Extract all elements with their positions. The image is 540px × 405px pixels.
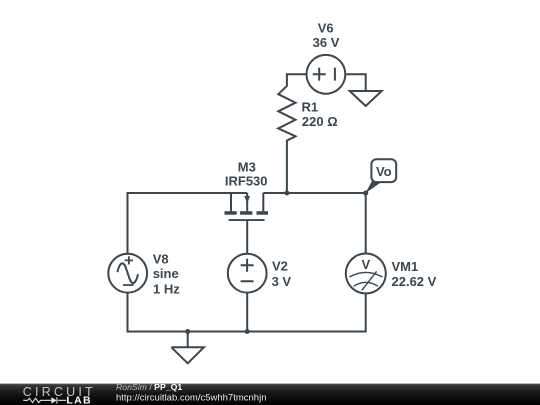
svg-text:3 V: 3 V — [272, 274, 292, 289]
svg-text:IRF530: IRF530 — [225, 174, 268, 189]
svg-text:V8: V8 — [153, 251, 169, 266]
svg-text:LAB: LAB — [66, 394, 91, 405]
svg-text:sine: sine — [153, 266, 179, 281]
svg-text:http://circuitlab.com/c5whh7tm: http://circuitlab.com/c5whh7tmcnhjn — [116, 392, 266, 403]
svg-text:V: V — [361, 257, 370, 272]
svg-text:1 Hz: 1 Hz — [153, 282, 180, 297]
svg-text:M3: M3 — [238, 159, 256, 174]
svg-text:V2: V2 — [272, 258, 288, 273]
svg-text:RonSim / PP_Q1: RonSim / PP_Q1 — [116, 382, 182, 392]
svg-text:V6: V6 — [318, 20, 334, 35]
svg-text:R1: R1 — [302, 99, 319, 114]
svg-text:VM1: VM1 — [392, 259, 419, 274]
svg-text:22.62 V: 22.62 V — [392, 274, 437, 289]
svg-text:36 V: 36 V — [313, 35, 340, 50]
svg-text:Vo: Vo — [376, 164, 392, 179]
svg-text:220 Ω: 220 Ω — [302, 114, 338, 129]
